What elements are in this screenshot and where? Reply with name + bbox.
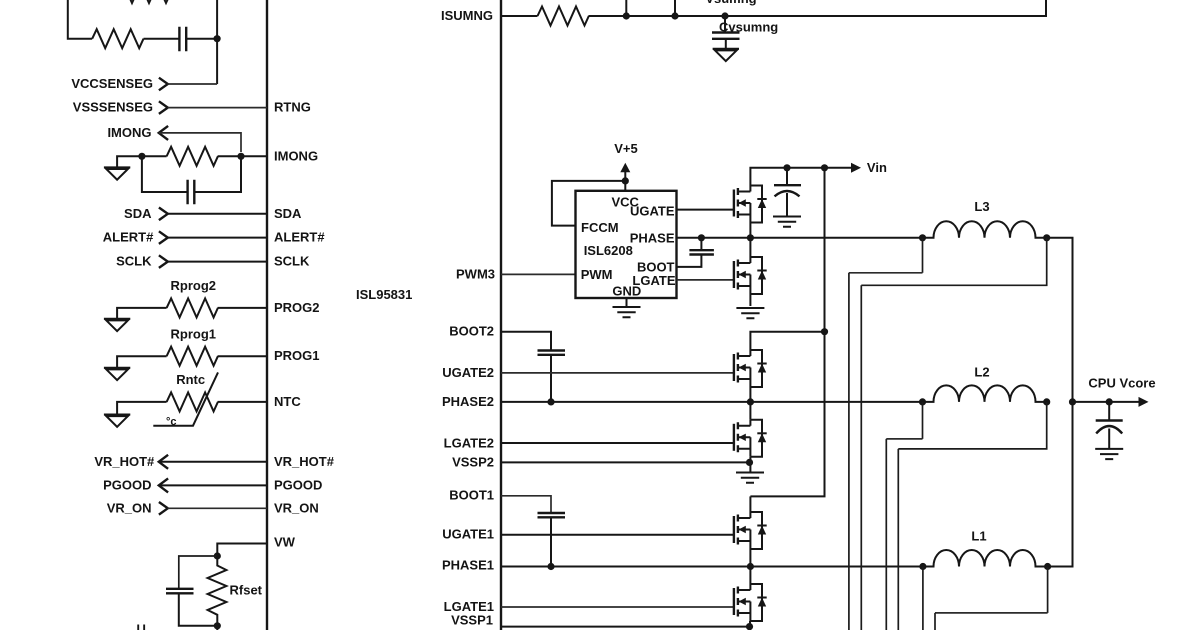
wire Vin capacitor to ground <box>786 193 788 216</box>
svg-text:Vin: Vin <box>867 160 887 175</box>
node Cvsumng <box>721 12 728 19</box>
wire Vin line with Q3 drain <box>750 168 852 186</box>
driver U1 ISL6208 box <box>576 191 677 298</box>
ISL95831 IC left edge <box>266 0 268 630</box>
capacitor Vin plates <box>774 185 801 196</box>
node Vsumng stub 1 <box>623 12 630 19</box>
resistor Rprog1 <box>167 347 218 366</box>
wire UGATE1 to Q1 high gate <box>501 534 734 536</box>
wire PHASE2 line <box>501 401 923 403</box>
wire BOOT2 to bootstrap cap <box>501 332 551 350</box>
svg-text:ISL95831: ISL95831 <box>356 287 412 302</box>
wire Q2 low source to ground <box>749 457 751 472</box>
svg-text:PHASE2: PHASE2 <box>442 394 494 409</box>
wire L3 right sense <box>861 238 1046 285</box>
svg-text:U: U <box>137 622 146 630</box>
wire stub 1 to top edge <box>625 0 627 16</box>
wire capacitor to right node <box>194 156 241 192</box>
svg-text:GND: GND <box>612 284 641 299</box>
capacitor BOOT2 bootstrap <box>538 351 566 355</box>
wire Q3 source to phase node <box>749 223 751 258</box>
wire L2 right sense <box>898 402 1046 449</box>
wire Q1 high drain to Vin rail <box>749 496 751 512</box>
svg-text:V+5: V+5 <box>614 141 638 156</box>
arrow SDA <box>159 208 168 221</box>
node L3 right <box>1043 234 1050 241</box>
wire L1 left sense vertical <box>922 567 924 630</box>
wire VCCSENSEG <box>168 83 218 85</box>
ground Cvsumng <box>713 49 739 61</box>
node Vin rail <box>821 164 828 171</box>
capacitor Cfset <box>166 589 194 594</box>
node PHASE3 at Q3 <box>747 234 754 241</box>
capacitor Vin decoupling <box>786 168 788 185</box>
wire L3 right sense vertical <box>860 285 862 630</box>
capacitor BOOT phase 3 <box>689 250 714 254</box>
transistor Q1 high-side <box>734 512 767 549</box>
wire UGATE to Q3 high gate <box>677 209 734 211</box>
ground Q3 source <box>736 308 764 318</box>
arrow CPU Vcore <box>1139 397 1149 407</box>
wire resistor to nodes <box>589 15 726 17</box>
wire stub 2 to top edge <box>674 0 676 16</box>
svg-text:RTNG: RTNG <box>274 100 311 115</box>
wire Vcore capacitor stem <box>1108 402 1110 421</box>
svg-text:VSSP2: VSSP2 <box>452 454 494 469</box>
wire Q2 source to phase node <box>749 387 751 420</box>
transistor Q3 high-side <box>734 186 767 223</box>
svg-text:PWM3: PWM3 <box>456 266 495 281</box>
svg-text:IMONG: IMONG <box>274 148 318 163</box>
svg-text:SDA: SDA <box>124 206 152 221</box>
svg-text:UGATE: UGATE <box>630 204 675 219</box>
svg-text:PGOOD: PGOOD <box>103 477 151 492</box>
svg-text:Rntc: Rntc <box>176 372 205 387</box>
resistor in VCCSENSEG feedback branch <box>92 29 143 48</box>
node VSSP1 <box>746 623 753 630</box>
wire VR_ON <box>168 507 268 509</box>
ground Rntc <box>104 415 130 427</box>
wire L1 right sense vertical <box>934 613 936 630</box>
wire VR_HOT# <box>159 461 267 463</box>
node L2 right <box>1043 398 1050 405</box>
svg-text:PHASE: PHASE <box>630 231 675 246</box>
wire LGATE1 to Q1 low gate <box>501 606 734 608</box>
wire PHASE1 line <box>501 566 923 568</box>
svg-text:PGOOD: PGOOD <box>274 477 322 492</box>
resistor Rntc thermistor <box>167 392 218 411</box>
svg-text:Vsumng: Vsumng <box>705 0 756 6</box>
svg-text:VCCSENSEG: VCCSENSEG <box>71 76 153 91</box>
wire L3 left sense horizontal <box>849 272 923 274</box>
wire Q2 high drain to Vin rail <box>750 332 824 350</box>
svg-text:FCCM: FCCM <box>581 220 619 235</box>
svg-text:VR_HOT#: VR_HOT# <box>94 454 155 469</box>
transistor Q2 low-side <box>734 420 767 457</box>
wire LGATE to Q3 low gate <box>677 279 734 281</box>
wire IMONG arrow to corner <box>159 133 241 152</box>
node bottom of Rfset <box>214 622 221 629</box>
ground ISL6208 <box>613 307 641 317</box>
svg-text:L2: L2 <box>974 365 989 380</box>
wire resistor to capacitor <box>144 38 180 40</box>
node PHASE1 boot cap <box>547 563 554 570</box>
svg-text:CPU Vcore: CPU Vcore <box>1088 376 1155 391</box>
wire SDA <box>168 213 268 215</box>
wire Rntc to ground <box>117 402 167 414</box>
wire Rprog2 to ground <box>117 308 167 318</box>
wire node to capacitor branch <box>179 556 218 588</box>
arrow SCLK <box>159 255 168 268</box>
wire L3 left sense vertical <box>848 273 850 630</box>
arrow VR_ON <box>159 502 168 515</box>
svg-text:°c: °c <box>166 416 177 428</box>
wire L3 left sense <box>922 238 924 273</box>
node Vcore capacitor <box>1106 398 1113 405</box>
capacitor BOOT1 bootstrap <box>538 513 566 517</box>
wire capacitor to node <box>186 38 217 40</box>
node VCC <box>622 177 629 184</box>
wire L1 right sense <box>1047 567 1049 613</box>
resistor IMONG <box>167 147 218 166</box>
arrow IMONG (output) <box>159 126 168 140</box>
svg-text:SCLK: SCLK <box>116 254 152 269</box>
ground Q2 source <box>736 473 764 483</box>
top-left feedback loop left wire <box>68 0 92 39</box>
svg-text:VR_HOT#: VR_HOT# <box>274 454 335 469</box>
svg-text:LGATE2: LGATE2 <box>444 435 494 450</box>
wire Rntc to NTC pin <box>218 401 267 403</box>
wire L1 right sense horizontal <box>935 612 1048 614</box>
wire CPU Vcore output <box>1073 401 1147 403</box>
arrow V+5 supply <box>620 163 630 173</box>
resistor ISUMNG <box>538 7 589 26</box>
wire FCCM loop <box>552 181 625 226</box>
svg-text:PROG2: PROG2 <box>274 300 320 315</box>
capacitor in VCCSENSEG feedback branch <box>179 27 186 52</box>
wire LGATE2 to Q2 low gate <box>501 442 734 444</box>
wire Q1 source to phase node <box>749 549 751 630</box>
wire L1 to Vcore rail <box>1048 402 1073 567</box>
wire left node to ground <box>117 156 142 166</box>
wire PHASE3 line <box>701 237 922 239</box>
node right of IMONG resistor <box>237 153 244 160</box>
node Vcore rail at L2 <box>1069 398 1076 405</box>
wire ISUMNG pin to resistor <box>501 15 538 17</box>
wire Cvsumng to ground <box>725 39 727 48</box>
svg-text:SCLK: SCLK <box>274 254 310 269</box>
wire Vcore capacitor to ground <box>1108 429 1110 449</box>
inductor L3 <box>923 221 1047 238</box>
wire Rprog1 to ground <box>117 356 167 367</box>
svg-text:UGATE1: UGATE1 <box>442 527 494 542</box>
wire BOOT pin elbow <box>677 255 702 267</box>
wire BOOT1 cap to PHASE1 <box>550 517 552 566</box>
wire node up to top edge <box>216 0 218 39</box>
node at top of VCCSENSEG branch <box>214 35 221 42</box>
ground Vin capacitor <box>773 217 801 227</box>
NTC diagonal arrow <box>153 372 218 425</box>
wire resistor to right node and IMONG pin <box>218 155 267 157</box>
wire L3 to Vcore rail <box>1047 238 1073 402</box>
node L2 left <box>919 398 926 405</box>
wire PGOOD <box>159 484 267 486</box>
wire VSSP2 <box>501 461 750 463</box>
svg-text:Rprog2: Rprog2 <box>171 278 217 293</box>
svg-text:L1: L1 <box>971 529 986 544</box>
svg-text:UGATE2: UGATE2 <box>442 365 494 380</box>
node Vin capacitor <box>783 164 790 171</box>
wire L2 right sense vertical <box>897 449 899 630</box>
node Vin rail phase 2 tap <box>821 328 828 335</box>
transistor Q3 low-side <box>734 257 767 294</box>
svg-text:Rprog1: Rprog1 <box>171 326 217 341</box>
arrow VCCSENSEG <box>159 78 168 91</box>
wire node to Cvsumng <box>724 16 726 32</box>
svg-text:VR_ON: VR_ON <box>107 500 152 515</box>
wire VW pin to Rfset top <box>217 544 267 557</box>
wire UGATE2 to Q2 high gate <box>501 372 734 374</box>
arrow VSSSENSEG <box>159 101 168 114</box>
wire left node down to capacitor branch <box>142 156 188 192</box>
svg-text:PWM: PWM <box>581 267 613 282</box>
node PHASE2 boot cap <box>547 398 554 405</box>
node left of IMONG resistor <box>138 153 145 160</box>
partial resistor at top edge <box>119 0 170 3</box>
svg-text:VSSSENSEG: VSSSENSEG <box>73 100 153 115</box>
svg-text:VW: VW <box>274 535 296 550</box>
svg-text:ALERT#: ALERT# <box>103 230 154 245</box>
capacitor Vcore plates <box>1096 421 1123 434</box>
wire V+5 to VCC <box>624 171 626 191</box>
svg-text:ALERT#: ALERT# <box>274 230 325 245</box>
resistor Rfset (vertical) <box>208 556 227 630</box>
svg-text:L3: L3 <box>974 199 989 214</box>
wire L2 left sense <box>922 402 924 439</box>
wire L2 left sense vertical <box>885 439 887 630</box>
arrow Vin <box>851 163 861 173</box>
svg-text:Rfset: Rfset <box>230 583 263 598</box>
wire BOOT capacitor to PHASE node <box>700 238 702 250</box>
arrow ALERT# <box>159 231 168 244</box>
wire PHASE pin <box>677 237 702 239</box>
node L1 right <box>1044 563 1051 570</box>
node Vsumng stub 2 <box>671 12 678 19</box>
wire Rprog2 to PROG2 pin <box>218 307 267 309</box>
ground Rprog2 <box>104 319 130 331</box>
wire Rprog1 to PROG1 pin <box>218 355 267 357</box>
wire VSSSENSEG to RTNG pin <box>168 107 268 109</box>
svg-text:BOOT1: BOOT1 <box>449 487 494 502</box>
ground Rprog1 <box>104 368 130 380</box>
capacitor IMONG parallel <box>188 180 195 205</box>
node VSSP2 <box>746 459 753 466</box>
inductor L1 <box>923 550 1047 566</box>
svg-text:VR_ON: VR_ON <box>274 500 319 515</box>
inductor L2 <box>923 385 1047 401</box>
wire Q3 low source to ground <box>749 294 751 306</box>
wire BOOT1 to bootstrap cap <box>501 496 551 513</box>
node top of Rfset <box>214 552 221 559</box>
wire left node to resistor <box>142 155 167 157</box>
svg-text:ISUMNG: ISUMNG <box>441 8 493 23</box>
node BOOT capacitor top <box>698 234 705 241</box>
capacitor Cvsumng <box>712 33 740 39</box>
wire BOOT2 cap to PHASE2 <box>550 355 552 402</box>
svg-text:BOOT2: BOOT2 <box>449 323 494 338</box>
svg-text:ISL6208: ISL6208 <box>584 243 633 258</box>
ISL95831 IC right edge <box>500 0 502 630</box>
svg-text:NTC: NTC <box>274 394 301 409</box>
wire Vin rail down <box>750 168 824 497</box>
svg-text:PHASE1: PHASE1 <box>442 558 494 573</box>
wire VSSP1 <box>501 626 750 628</box>
wire capacitor to bottom node <box>179 593 218 626</box>
svg-text:PROG1: PROG1 <box>274 348 320 363</box>
node PHASE1 at Q1 <box>747 563 754 570</box>
arrow PGOOD (output) <box>159 478 168 492</box>
arrow VR_HOT# (output) <box>159 455 168 469</box>
wire L2 left sense horizontal <box>886 438 922 440</box>
svg-text:VSSP1: VSSP1 <box>451 613 493 628</box>
wire PWM3 to ISL6208 PWM pin <box>501 273 576 275</box>
node PHASE2 at Q2 <box>747 398 754 405</box>
node L1 left <box>919 563 926 570</box>
transistor Q2 high-side <box>734 350 767 387</box>
ground IMONG network <box>104 167 130 179</box>
ground Vcore capacitor <box>1095 449 1123 459</box>
svg-text:SDA: SDA <box>274 206 302 221</box>
wire SCLK <box>168 261 268 263</box>
svg-text:IMONG: IMONG <box>107 125 151 140</box>
wire GND stub <box>626 298 628 306</box>
wire ALERT# <box>168 237 268 239</box>
wire node down to VCCSENSEG <box>216 39 218 84</box>
resistor Rprog2 <box>167 298 218 317</box>
node L3 left <box>919 234 926 241</box>
transistor Q1 low-side <box>734 584 767 621</box>
wire ISUMNG long to right and up <box>725 0 1046 16</box>
